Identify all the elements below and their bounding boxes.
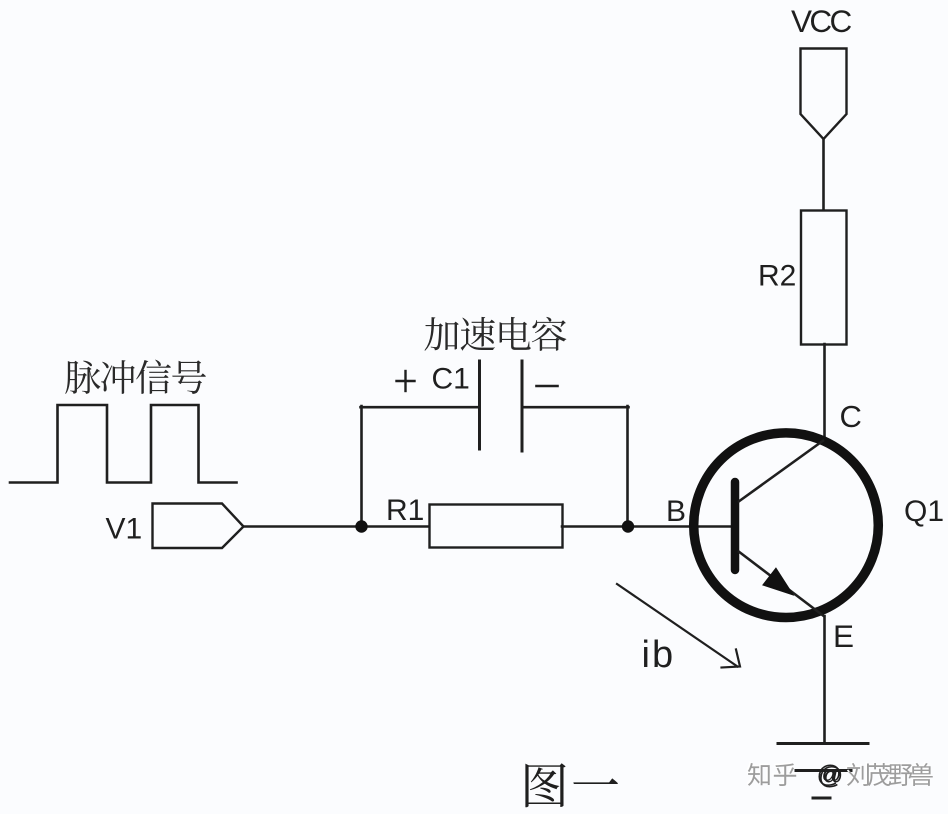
- polarity minus sign: [537, 385, 558, 388]
- svg-text:B: B: [666, 495, 686, 528]
- emitter wire: [823, 616, 826, 743]
- node B junction dot: [622, 520, 634, 532]
- transistor Q1 emitter arrowhead: [764, 569, 792, 594]
- polarity plus sign: [397, 371, 415, 391]
- transistor Q1 base bar: [731, 482, 740, 570]
- transistor Q1 collector stroke: [738, 440, 824, 502]
- resistor R2: [801, 211, 847, 345]
- wire R2 to collector: [823, 344, 826, 438]
- svg-text:V1: V1: [106, 513, 143, 546]
- wire C1 to right corner: [524, 406, 629, 409]
- node A junction dot: [355, 520, 367, 532]
- svg-text:@: @: [818, 762, 843, 790]
- transistor Q1 body circle: [694, 433, 879, 618]
- svg-text:ib: ib: [642, 634, 676, 676]
- wire V1 to node A: [244, 525, 429, 528]
- ib arrow line: [617, 584, 738, 667]
- watermark 知乎 @刘茂野兽: [746, 761, 932, 791]
- wire VCC to R2: [822, 139, 825, 210]
- ground top bar: [778, 742, 868, 745]
- label 加速电容 (speed-up capacitor): [424, 317, 566, 351]
- transistor Q1 emitter stroke: [738, 551, 825, 617]
- svg-text:R1: R1: [386, 494, 424, 527]
- svg-text:C: C: [840, 399, 862, 434]
- wire top left to C1: [361, 406, 479, 409]
- wire node A up to cap top: [360, 406, 363, 527]
- ib arrowhead: [722, 650, 741, 668]
- ground bottom bar: [813, 797, 830, 800]
- wire down to node B: [626, 406, 629, 527]
- svg-text:E: E: [833, 618, 854, 654]
- VCC symbol: [801, 49, 847, 140]
- caption 图一 (Figure 1): [525, 763, 618, 807]
- capacitor C1 right plate: [521, 361, 524, 451]
- resistor R1: [430, 505, 563, 548]
- pulse signal waveform: [10, 405, 237, 483]
- svg-text:VCC: VCC: [791, 3, 852, 39]
- svg-text:R2: R2: [758, 260, 796, 293]
- wire R1 to base: [562, 525, 731, 528]
- capacitor C1 left plate: [478, 361, 481, 449]
- ground middle bar: [796, 769, 851, 772]
- svg-text:Q1: Q1: [904, 495, 944, 528]
- label 脉冲信号 (pulse signal): [65, 360, 206, 394]
- source V1 tag: [153, 504, 244, 549]
- svg-text:C1: C1: [432, 362, 470, 395]
